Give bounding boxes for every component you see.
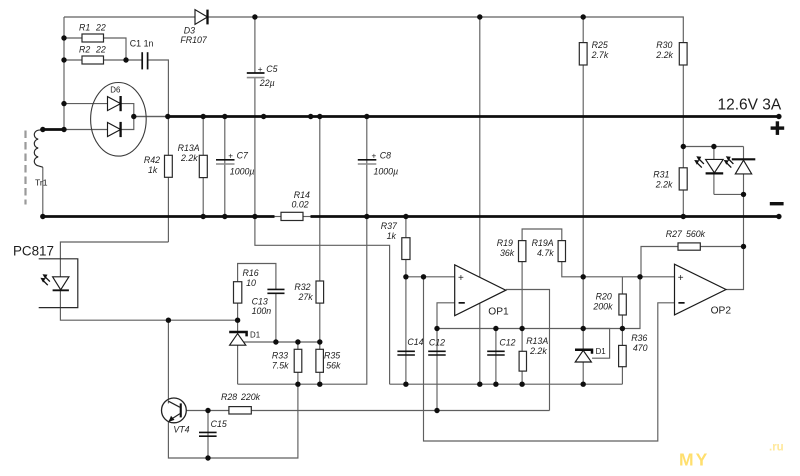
wire D6 output to bus <box>134 116 168 118</box>
wire LED top <box>683 146 743 148</box>
wire OP2 plus input <box>583 276 674 278</box>
wire D6 bottom anode <box>64 129 108 131</box>
node minus bus right <box>311 215 779 218</box>
resistor R31 <box>653 168 687 190</box>
resistor R1 <box>79 22 106 42</box>
svg-text:+: + <box>372 152 377 161</box>
svg-text:1n: 1n <box>144 38 154 48</box>
node minus bus left <box>43 215 275 218</box>
svg-text:R42: R42 <box>144 155 160 165</box>
wire R37 leads <box>405 217 407 238</box>
svg-text:2.2k: 2.2k <box>529 346 547 356</box>
rectifier D6 <box>91 83 147 157</box>
transformer Tr1 <box>26 130 48 205</box>
svg-text:C13: C13 <box>252 296 268 306</box>
resistor R14 <box>281 190 310 221</box>
svg-text:22: 22 <box>95 22 106 32</box>
wire LED2 leads <box>743 147 745 160</box>
svg-text:56k: 56k <box>326 360 341 370</box>
svg-text:R35: R35 <box>324 350 340 360</box>
capacitor C14 <box>397 337 423 355</box>
svg-text:C14: C14 <box>407 337 423 347</box>
wire VT4 emitter down and bottom <box>168 384 298 458</box>
wire VT4 collector riser <box>167 320 169 401</box>
wire left vertical <box>63 17 65 130</box>
svg-text:1000µ: 1000µ <box>374 166 399 176</box>
wire zener2 branch <box>582 277 584 384</box>
op-amp OP1 <box>455 265 509 318</box>
svg-text:R1: R1 <box>79 22 90 32</box>
svg-text:+: + <box>258 65 263 74</box>
svg-text:R13A: R13A <box>526 336 548 346</box>
wire D3 C5 branch <box>254 17 256 73</box>
svg-text:R13A: R13A <box>178 143 200 153</box>
wire R13A2 leads <box>521 329 523 352</box>
resistor R35 <box>316 349 341 372</box>
svg-text:C12: C12 <box>499 338 515 348</box>
svg-text:200k: 200k <box>592 302 613 312</box>
wire R36 leads <box>621 329 623 346</box>
svg-text:R28: R28 <box>221 392 237 402</box>
svg-text:1000µ: 1000µ <box>230 166 255 176</box>
svg-text:100n: 100n <box>252 306 272 316</box>
wire R19 bottom <box>521 262 523 329</box>
svg-text:2.2k: 2.2k <box>180 153 198 163</box>
svg-text:R19: R19 <box>497 238 513 248</box>
svg-text:R2: R2 <box>79 44 90 54</box>
wire R27 leads <box>700 246 743 248</box>
wire C12b branch <box>495 329 497 385</box>
svg-text:12.6V 3A: 12.6V 3A <box>718 97 782 114</box>
wire mid long vertical <box>479 17 481 384</box>
wire OP2 plus node down bend <box>622 277 640 329</box>
wire R25 branch <box>582 17 584 43</box>
svg-text:Tr1: Tr1 <box>35 177 48 187</box>
wire kelvin sense loop <box>255 217 390 385</box>
wire C7 branch <box>224 117 226 217</box>
wire R19A bottom bend <box>562 262 583 277</box>
diode D3 FR107 <box>180 10 208 45</box>
resistor R25 <box>579 40 609 65</box>
svg-text:R27: R27 <box>666 229 683 239</box>
zener D1 left <box>229 331 260 346</box>
wire transformer bottom lead <box>42 167 44 216</box>
wire OP loop to OP2 minus <box>424 277 675 441</box>
wire R16 bottom <box>237 303 239 320</box>
wire left bottom rail <box>238 217 367 385</box>
wire R13A1 branch <box>202 117 204 217</box>
node output plus label <box>718 97 785 135</box>
wire transformer top thick <box>42 128 65 131</box>
wire R14 leads <box>275 216 282 218</box>
wire zener1 branch <box>237 320 239 384</box>
svg-text:C5: C5 <box>266 64 277 74</box>
svg-text:+: + <box>678 273 684 284</box>
svg-text:R25: R25 <box>592 40 608 50</box>
wire C8 branch <box>366 117 368 217</box>
svg-text:C15: C15 <box>211 419 227 429</box>
capacitor C8 <box>358 150 398 176</box>
svg-text:C8: C8 <box>380 150 391 160</box>
svg-text:VT4: VT4 <box>173 425 189 435</box>
resistor R19 <box>497 238 526 261</box>
svg-text:2.2k: 2.2k <box>655 50 673 60</box>
svg-text:0.02: 0.02 <box>292 199 309 209</box>
resistor R32 <box>294 281 323 303</box>
wire PC817 loop <box>60 242 168 277</box>
svg-text:R31: R31 <box>653 170 669 180</box>
capacitor C7 <box>216 150 254 176</box>
svg-text:R16: R16 <box>243 268 259 278</box>
wire C14 branch <box>405 277 407 384</box>
capacitor C13 <box>252 289 285 316</box>
wire node rail y342 <box>238 341 320 343</box>
svg-text:R20: R20 <box>596 292 612 302</box>
wire C1 to R42 to PC817 <box>148 60 169 242</box>
optocoupler PC817 <box>13 243 78 307</box>
wire D1 box loop <box>583 329 609 359</box>
wire mid node rail y328 <box>437 328 622 330</box>
wire R30 R31 branch <box>682 65 684 168</box>
svg-text:+: + <box>228 152 233 161</box>
svg-text:27k: 27k <box>298 292 314 302</box>
LED HL2 <box>724 156 756 174</box>
resistor R27 <box>666 229 706 250</box>
node output minus label <box>770 202 784 205</box>
svg-text:470: 470 <box>633 343 648 353</box>
resistor R19A <box>532 238 566 261</box>
resistor R2 <box>79 44 106 64</box>
svg-text:PC817: PC817 <box>13 243 54 258</box>
resistor R13A near OP1 <box>519 336 548 371</box>
wire top rail left <box>64 16 195 18</box>
svg-text:R32: R32 <box>294 282 310 292</box>
svg-text:.ru: .ru <box>769 442 784 454</box>
svg-text:+: + <box>458 273 464 284</box>
capacitor C1 <box>130 38 154 69</box>
resistor R30 <box>655 40 687 65</box>
wire R20 leads <box>621 277 623 294</box>
svg-text:1k: 1k <box>148 165 158 175</box>
resistor R20 <box>592 292 626 315</box>
svg-text:D6: D6 <box>110 86 121 95</box>
wire C13 bottom <box>275 294 277 342</box>
svg-text:FR107: FR107 <box>180 35 208 45</box>
wire R33 leads <box>297 342 299 349</box>
wire LED1 leads <box>713 147 715 160</box>
svg-text:7.5k: 7.5k <box>272 360 289 370</box>
svg-text:22µ: 22µ <box>259 78 275 88</box>
wire R28 row <box>181 410 229 412</box>
svg-text:C1: C1 <box>130 38 141 48</box>
resistor R16 <box>234 268 259 303</box>
svg-text:R33: R33 <box>272 350 288 360</box>
svg-text:MY: MY <box>679 450 709 470</box>
wire OP1 minus input <box>437 303 455 329</box>
svg-text:R19A: R19A <box>532 238 554 248</box>
svg-text:R37: R37 <box>381 221 398 231</box>
svg-text:D3: D3 <box>184 25 195 35</box>
capacitor C5 <box>247 64 278 88</box>
svg-text:560k: 560k <box>686 229 706 239</box>
wire R32 branch <box>319 117 321 282</box>
wire LED node to OP2 output <box>726 194 744 289</box>
wire R1 leads <box>64 37 82 39</box>
resistor R42 <box>144 155 172 177</box>
capacitor C12 b <box>487 338 515 355</box>
op-amp OP2 <box>675 264 732 316</box>
wire C12a branch <box>436 329 438 411</box>
svg-text:10: 10 <box>246 278 256 288</box>
wire R35 leads <box>319 342 321 349</box>
svg-text:R36: R36 <box>631 333 647 343</box>
wire C15 branch <box>207 411 209 459</box>
svg-text:D1: D1 <box>250 331 260 340</box>
svg-text:OP2: OP2 <box>711 305 732 316</box>
wire top rail right <box>208 17 684 43</box>
svg-text:1k: 1k <box>387 231 397 241</box>
svg-text:C7: C7 <box>237 150 249 160</box>
resistor R28 <box>221 392 261 414</box>
svg-text:2.2k: 2.2k <box>655 179 673 189</box>
wire D6 top anode <box>64 103 108 105</box>
resistor R37 <box>381 221 410 259</box>
svg-text:22: 22 <box>95 44 106 54</box>
svg-text:C12: C12 <box>429 338 445 348</box>
resistor R13A <box>178 143 208 177</box>
svg-text:4.7k: 4.7k <box>537 248 554 258</box>
wire right bottom rail <box>390 383 623 385</box>
svg-text:220k: 220k <box>240 392 261 402</box>
wire OP1 plus input <box>406 276 455 278</box>
wire R19 R19A bracket <box>522 229 562 241</box>
svg-text:D1: D1 <box>596 347 606 356</box>
resistor R33 <box>272 349 302 372</box>
zener D1 right <box>575 347 606 362</box>
wire R2 leads <box>64 59 82 61</box>
wire D6 cathode join <box>121 104 134 130</box>
wire OP1 output to R28 <box>506 290 550 411</box>
capacitor C15 <box>199 419 227 436</box>
resistor R36 <box>619 333 648 366</box>
transistor VT4 <box>162 398 190 435</box>
svg-text:2.7k: 2.7k <box>591 50 609 60</box>
node plus bus <box>168 115 779 118</box>
wire LED bottom join <box>714 193 744 195</box>
svg-text:R30: R30 <box>656 40 672 50</box>
svg-text:OP1: OP1 <box>488 306 509 317</box>
svg-text:36k: 36k <box>500 248 515 258</box>
wire R16 C13 bracket <box>238 264 276 290</box>
capacitor C12 a <box>428 338 446 355</box>
node plus bus thin start <box>134 116 168 118</box>
LED HL1 <box>694 156 723 173</box>
